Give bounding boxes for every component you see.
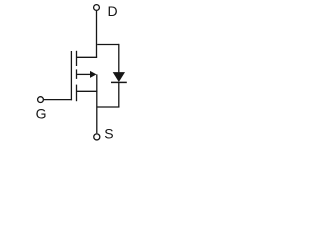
mosfet Q1 gate electrode [70,51,72,100]
svg-text:S: S [104,125,113,141]
terminal G circle [38,97,44,103]
body diode D1 cathode bar [111,81,127,83]
terminal D circle [94,5,100,11]
wire: body stub (arrow line) [77,73,92,75]
wire: source stub [77,90,98,92]
terminal S circle [94,134,100,140]
wire: branch from drain lead to diode anode [97,44,119,46]
svg-text:D: D [108,3,118,19]
body diode D1 triangle (anode up, pointing down) [113,72,125,82]
mosfet Q1 channel bottom segment [76,85,78,102]
wire: diode anode vertical [118,44,120,73]
mosfet Q1 body arrow (points to source: p-channel) [90,71,97,78]
wire: source vertical down to S terminal [96,74,98,133]
wire: diode bottom to source node [97,106,120,108]
svg-text:G: G [36,106,47,122]
wire: drain lead from D terminal down to drain stub [96,11,98,57]
wire: drain stub from channel to drain vertical [77,56,98,58]
mosfet Q1 channel middle segment [76,69,78,79]
mosfet Q1 channel top segment [76,51,78,66]
wire: gate lead from G terminal [43,99,72,101]
wire: diode cathode vertical [118,82,120,107]
